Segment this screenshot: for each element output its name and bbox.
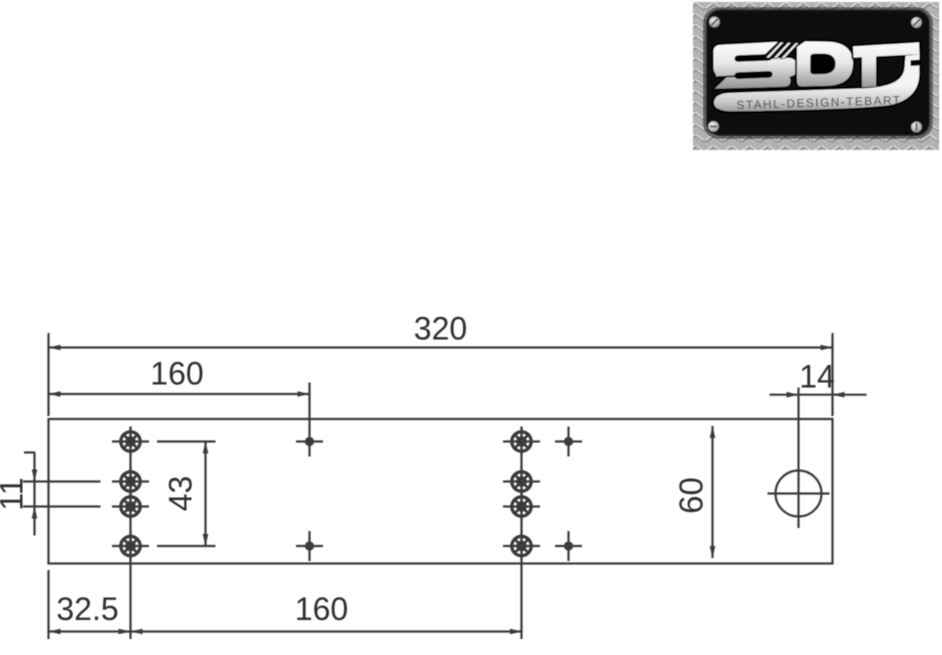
svg-text:14: 14 [799,359,835,395]
dim 60: dimension line [711,426,713,558]
dim 11: dimension line vertical [33,453,35,536]
cross right top [555,427,582,457]
hole C2R3 [503,492,540,522]
black logo plate shadow [703,7,933,139]
diamond plate texture background [693,2,939,150]
hole column 2 centerline [520,427,522,640]
dim 160 top: dimension line [49,393,310,395]
hole C1R1 [112,427,149,457]
screw top-left [709,16,721,28]
dim 43: extension line bottom [157,545,216,547]
svg-text:60: 60 [673,477,710,514]
hole C2R4 [503,531,540,561]
hole column 1 centerline [129,427,131,640]
bottom 32.5 arrows [49,629,61,635]
dim 43: extension line top [157,440,216,442]
dim 14: extension line at hole center [797,388,799,457]
dim 11: extension line upper [23,480,101,482]
160 top arrows [49,391,61,397]
svg-text:11: 11 [0,477,30,510]
bottom 160 arrows [131,629,143,635]
svg-text:320: 320 [414,311,467,347]
large hole circle [776,471,822,517]
cross mid bottom [296,531,323,561]
dim 320: extension line right [831,333,833,416]
320 arrows [49,345,61,351]
hole C2R2 [503,467,540,497]
large circle crosshair horizontal [768,492,830,494]
letter S [714,42,797,89]
14 arrows (outside) [787,392,799,398]
dim 14: dimension line [770,394,867,396]
cross right bottom [555,531,582,561]
svg-text:160: 160 [150,356,203,392]
plain cross marks [296,427,582,562]
letter D [797,41,853,86]
dimension texts [0,311,835,628]
D counter hole [810,54,835,75]
11 arrows (outside) [32,470,38,482]
dim 11: extension line lower [23,505,101,507]
cross mid top [296,427,323,457]
hole C2R1 [503,427,540,457]
43 arrows [203,442,209,454]
S lower slot [735,71,773,79]
svg-text:160: 160 [295,591,348,627]
S upper slot [735,54,773,62]
letter T with J-swoosh underline [714,42,920,111]
screw bottom-left [708,121,720,133]
dim 320: dimension line [49,346,833,348]
dim 320: extension line left [47,333,49,416]
hole C1R2 [112,467,149,497]
S seam [717,76,737,77]
screw top-right [911,17,923,29]
dim 43: dimension line [204,442,206,547]
slashes /// [766,42,800,59]
black logo plate [706,10,930,137]
svg-text:32.5: 32.5 [56,591,118,627]
hole C1R4 [112,531,149,561]
crosshair hole symbols [112,427,540,562]
hole C1R3 [112,492,149,522]
svg-text:43: 43 [163,476,199,512]
dim 160 top: extension line right [308,383,310,429]
dim 11: top tick [24,451,35,453]
60 arrows [710,426,716,438]
arrowheads [32,345,845,635]
large circle crosshair vertical (lower part) [797,456,799,528]
bottom dims: dimension line [49,630,523,632]
bottom dims: extension left plate edge [47,570,49,639]
screw bottom-right [911,121,923,133]
T right-edge notch [911,60,922,66]
plate outline [49,419,833,564]
